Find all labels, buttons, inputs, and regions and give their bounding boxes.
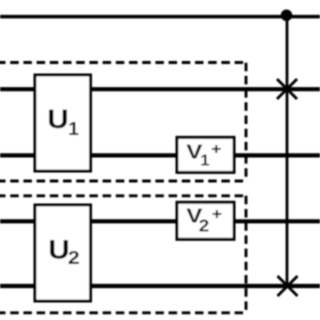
svg-text:+: +: [212, 205, 222, 223]
svg-text:2: 2: [199, 215, 210, 235]
svg-text:1: 1: [200, 152, 209, 170]
svg-text:2: 2: [68, 248, 80, 268]
svg-text:U: U: [48, 235, 69, 265]
svg-text:+: +: [211, 140, 221, 158]
svg-text:U: U: [47, 104, 68, 134]
svg-text:1: 1: [68, 119, 79, 139]
